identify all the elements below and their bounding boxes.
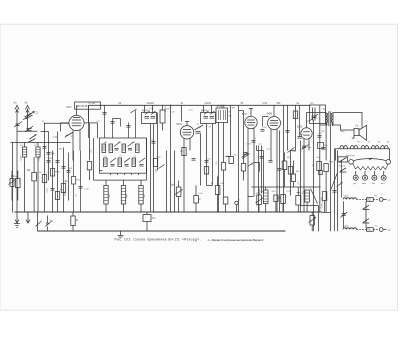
wire — [206, 124, 208, 186]
dial cord loops — [336, 145, 390, 160]
switch B1 — [29, 139, 36, 143]
svg-text:1М: 1М — [220, 183, 223, 185]
trimmer C9 — [124, 158, 130, 166]
svg-text:Пл: Пл — [152, 216, 156, 220]
svg-text:ФПЧ-2: ФПЧ-2 — [201, 109, 209, 113]
svg-text:2х4300: 2х4300 — [147, 103, 155, 105]
resistor R1 — [16, 171, 21, 201]
wire jog top — [239, 110, 244, 112]
capacitor C17 — [281, 195, 286, 213]
wire — [258, 146, 260, 213]
svg-text:ФПЧ-1: ФПЧ-1 — [142, 109, 150, 113]
wire — [341, 161, 343, 198]
wire — [166, 151, 168, 213]
wire — [150, 124, 152, 213]
wire — [93, 138, 95, 180]
wire — [88, 105, 90, 138]
wire — [48, 132, 50, 181]
coil L6 — [136, 144, 140, 153]
capacitor C43 — [298, 137, 302, 139]
switch S4 — [36, 221, 42, 227]
ground bottom mid — [118, 231, 124, 237]
speaker LS1 — [352, 125, 367, 140]
svg-text:R: R — [76, 218, 78, 222]
svg-text:1 — Вариант с Кенотронным выпр: 1 — Вариант с Кенотронным выпрямителем, … — [208, 238, 265, 242]
capacitor C33 — [43, 147, 47, 149]
wire — [73, 184, 75, 213]
tube V1 6A7 envelope — [69, 115, 84, 130]
wire — [16, 143, 18, 213]
tube V3 grids — [247, 120, 255, 125]
variable cap C34 tube3 — [242, 153, 248, 158]
wire jog — [291, 150, 296, 152]
wire band switch drop 2 — [112, 119, 114, 139]
potentiometer R19 — [9, 171, 16, 201]
tube V5 anode lead — [306, 124, 308, 128]
capacitor C15 — [223, 197, 228, 213]
capacitor C27 — [269, 161, 273, 163]
ground — [26, 212, 30, 223]
tube V5 grids — [303, 132, 310, 135]
wire diag to bus — [331, 173, 338, 191]
tube V1 cathode pins — [73, 130, 80, 160]
capacitor C40 — [79, 187, 83, 189]
diag arrow left input — [30, 135, 37, 140]
svg-text:0,25: 0,25 — [263, 103, 268, 105]
dial cord arrow — [369, 158, 373, 160]
dial cord upper run — [354, 159, 387, 161]
resistor R9 — [291, 161, 295, 188]
filter choke L16 — [305, 190, 310, 212]
wire — [243, 156, 245, 181]
wire — [89, 170, 91, 180]
svg-text:Верньер: Верньер — [346, 155, 355, 157]
antenna A1 — [15, 105, 19, 142]
wire — [238, 105, 240, 212]
dial cord lower zigzag — [353, 164, 388, 170]
svg-text:07 297: 07 297 — [89, 103, 97, 105]
dial pulley right — [386, 160, 391, 165]
power box — [310, 105, 326, 124]
svg-text:R: R — [211, 182, 213, 186]
wire — [37, 213, 39, 232]
svg-text:Сеть 110в: Сеть 110в — [321, 197, 324, 209]
tube V1 grids — [72, 118, 82, 126]
wire to speaker — [333, 113, 362, 128]
svg-text:6Г2: 6Г2 — [242, 112, 247, 116]
capacitor C4 — [47, 153, 51, 155]
tube V2 pins — [184, 139, 190, 213]
tube V3 6G2 envelope — [245, 116, 257, 128]
variable cap C30 — [302, 145, 309, 150]
svg-text:6К3: 6К3 — [177, 122, 182, 126]
wire — [57, 132, 59, 213]
wire — [12, 143, 14, 213]
svg-text:5100: 5100 — [21, 155, 23, 161]
resistor R6 — [221, 163, 225, 171]
wire diagonal — [311, 189, 318, 204]
resistor R10 — [293, 111, 297, 119]
tube V4 pins — [271, 129, 277, 213]
tube V5 6P6S envelope — [301, 128, 312, 139]
coil L3 — [102, 144, 106, 153]
socket terminal 1 — [353, 171, 358, 180]
wire — [325, 172, 327, 213]
resistor R4 — [87, 162, 91, 170]
capacitor C24 — [244, 153, 248, 155]
resistor R24 — [324, 164, 328, 172]
wire — [301, 205, 319, 207]
wire — [334, 213, 336, 232]
tube V4 grids — [270, 121, 279, 126]
mains choke L13 — [343, 198, 357, 200]
wire step — [323, 212, 331, 214]
trimmer C6 — [114, 142, 120, 150]
wire — [44, 124, 46, 213]
wire — [223, 123, 225, 163]
capacitor C22 — [192, 159, 196, 161]
wire band switch drop 3 — [128, 123, 130, 139]
tube V2 6K3 envelope — [180, 126, 193, 139]
svg-text:5100: 5100 — [20, 178, 22, 184]
svg-text:A1: A1 — [14, 101, 18, 105]
wire jog — [257, 146, 264, 151]
resistor R21 under tube2 — [182, 148, 186, 156]
capacitor C21 — [152, 142, 156, 144]
svg-text:A2: A2 — [25, 101, 29, 105]
electrolytic C18 — [296, 187, 301, 213]
capacitor C44 — [318, 136, 322, 138]
tube V2 grids — [183, 130, 192, 135]
tube V5 pins — [304, 138, 309, 212]
socket terminal 2 — [363, 171, 368, 180]
variable cap C28 — [288, 148, 295, 153]
tube V2 top cap — [185, 122, 189, 126]
wire grid line to tube1 — [45, 122, 70, 124]
resistor R17 — [42, 175, 46, 183]
capacitor C31 — [278, 169, 282, 171]
wire — [263, 151, 265, 194]
wire — [223, 170, 225, 197]
wire to speaker lower — [333, 125, 354, 130]
switch arm — [65, 132, 74, 138]
wire — [174, 151, 176, 213]
capacitor C19 — [51, 189, 55, 191]
variable cap C25 — [243, 154, 250, 159]
wire lower bus — [38, 230, 286, 232]
svg-text:Рис. 103. Схема приемника 6Н-2: Рис. 103. Схема приемника 6Н-25, «Рекорд… — [115, 238, 201, 242]
wire — [287, 105, 289, 150]
svg-text:C4: C4 — [51, 152, 55, 156]
capacitor C20 — [62, 167, 66, 169]
wire — [318, 206, 320, 232]
tube V3 top lead — [249, 109, 253, 117]
tick row on osc box — [100, 171, 139, 176]
wire — [146, 138, 148, 180]
svg-text:51к: 51к — [234, 155, 237, 157]
capacitor C12 — [310, 114, 318, 121]
switch lever — [340, 168, 347, 172]
coil L8 — [118, 158, 122, 167]
capacitor C45 — [322, 148, 326, 150]
resistor R18 — [55, 192, 59, 200]
wire — [325, 124, 327, 161]
capacitor C16 — [274, 195, 278, 213]
wire — [52, 151, 54, 213]
wire left input bus — [11, 142, 71, 144]
wire heavy pair — [279, 131, 281, 213]
wire jog — [254, 163, 260, 172]
wire — [230, 105, 232, 156]
svg-text:51к: 51к — [166, 108, 169, 110]
wire dashed — [357, 229, 367, 231]
capacitor C39 — [67, 171, 71, 173]
resistor R23 — [288, 167, 292, 175]
socket terminal 4 — [381, 171, 386, 180]
wire jog — [263, 117, 269, 127]
switch S1 — [46, 216, 51, 232]
wire — [200, 161, 202, 186]
wire dashed — [373, 229, 379, 231]
resistor R25 — [241, 164, 245, 172]
wire jog — [113, 119, 121, 127]
svg-text:Др: Др — [65, 179, 69, 183]
ground — [14, 212, 20, 228]
resistor R2 — [32, 157, 37, 213]
svg-text:51к: 51к — [317, 157, 320, 159]
capacitor C13 — [340, 212, 347, 218]
wire — [63, 148, 65, 213]
resistor R3 — [61, 184, 65, 193]
coil L9 — [132, 158, 136, 167]
trimmer capacitor C1 — [23, 112, 34, 121]
socket terminal 3 — [372, 171, 377, 180]
capacitor C38 — [47, 161, 51, 163]
padder coil L10 — [104, 180, 108, 212]
padder coil L12 — [139, 180, 143, 212]
switch S2 — [363, 205, 370, 209]
trimmer C8 — [110, 158, 116, 166]
resistor R11 — [317, 162, 323, 175]
capacitor C46 — [302, 146, 306, 148]
resistor R20 — [153, 159, 157, 167]
wire — [80, 151, 82, 213]
svg-text:R: R — [172, 183, 174, 187]
wire — [89, 123, 91, 161]
wire — [337, 151, 339, 232]
wire — [334, 149, 336, 213]
wire mains mid leg — [365, 201, 367, 227]
wire tube1 grid left — [84, 123, 98, 139]
dial pulley left — [349, 160, 354, 165]
wire sub-bus — [252, 186, 321, 188]
capacitor C5 — [56, 161, 60, 163]
wire — [88, 105, 90, 122]
switch arm S5 — [159, 165, 165, 169]
trimmer capacitor C3 — [25, 126, 33, 132]
wire — [41, 131, 49, 133]
resistor R14 — [215, 177, 220, 213]
IF transformer T2 box — [201, 105, 216, 123]
fuse F1 — [367, 198, 374, 202]
plug P1 — [379, 198, 386, 202]
wire oscillator sub-bus — [94, 179, 147, 181]
diag switch — [248, 163, 254, 167]
svg-text:Шкала: Шкала — [339, 166, 347, 168]
capacitor C29 — [286, 131, 290, 133]
wire dashed — [357, 199, 367, 201]
switch diag — [131, 109, 137, 113]
IF transformer T1 box — [142, 105, 157, 123]
capacitor C41 — [252, 141, 256, 143]
switch S3 — [363, 219, 370, 223]
wire — [299, 105, 301, 136]
diag arrow — [337, 183, 343, 187]
svg-text:ПО: ПО — [367, 229, 371, 232]
tube V1 anode lead — [76, 105, 78, 115]
resistor R27 — [72, 177, 76, 185]
wire main chassis bus — [15, 211, 323, 213]
wire — [212, 124, 214, 186]
trimmer C7 — [128, 142, 134, 150]
wire — [153, 124, 155, 213]
wire top B+ bus — [89, 104, 311, 106]
resistor R16 — [71, 213, 75, 232]
svg-text:R: R — [313, 164, 315, 168]
component box top — [318, 143, 324, 149]
wire — [17, 130, 38, 132]
wire — [68, 153, 70, 201]
tube V4 anode lead — [273, 105, 275, 116]
filter choke L15 — [263, 187, 268, 212]
svg-text:2200: 2200 — [39, 155, 41, 161]
IF transformer T3 box — [216, 108, 228, 123]
resistor R22 — [204, 167, 208, 175]
wire — [330, 126, 332, 232]
wire — [170, 105, 172, 212]
svg-text:R1: R1 — [11, 174, 15, 178]
wire dashed — [373, 199, 379, 201]
capacitor C23 — [205, 161, 209, 163]
wire — [261, 146, 263, 194]
box AGC top — [75, 102, 101, 109]
small junction dots — [45, 105, 171, 123]
capacitor C14 — [194, 186, 199, 213]
variable cap C11 — [195, 125, 204, 133]
svg-text:бат: бат — [372, 183, 375, 185]
wire — [61, 123, 70, 132]
svg-text:6Е5: 6Е5 — [297, 125, 303, 129]
plug P2 — [379, 228, 386, 232]
svg-text:R2: R2 — [27, 168, 31, 172]
svg-text:ДВ СВ КВ: ДВ СВ КВ — [77, 105, 88, 108]
wire — [181, 105, 183, 121]
capacitor C42 — [261, 130, 265, 132]
svg-text:1500: 1500 — [64, 191, 66, 197]
svg-text:C1: C1 — [35, 111, 39, 115]
svg-text:ПО: ПО — [367, 199, 371, 202]
wire — [313, 213, 315, 232]
coil L2 — [36, 143, 40, 213]
wire — [218, 123, 220, 213]
pilot lamp box — [143, 213, 151, 232]
capacitor C37 — [127, 126, 131, 128]
coil L7 — [104, 158, 108, 167]
wire — [290, 151, 292, 196]
svg-text:C: C — [199, 197, 201, 201]
capacitor C36 — [111, 122, 115, 124]
resistor R28 — [322, 192, 327, 213]
drive box — [338, 157, 348, 162]
tube V4 6P6 envelope — [268, 117, 281, 130]
tube V3 pins — [248, 128, 254, 213]
trimmer C10 — [139, 158, 145, 166]
wire band switch drop 4 — [135, 111, 137, 139]
capacitor C32 — [333, 191, 337, 193]
svg-text:2х430: 2х430 — [205, 103, 212, 105]
output transformer T4 — [307, 111, 334, 126]
wire — [200, 134, 202, 161]
coil L1 — [23, 143, 27, 213]
wire mains left leg — [343, 201, 345, 228]
antenna A2 — [25, 105, 29, 131]
svg-text:6А7: 6А7 — [67, 105, 73, 109]
capacitor C35 — [103, 113, 107, 115]
wire — [243, 111, 245, 156]
volume pot R13 — [175, 181, 183, 213]
wire jog — [248, 196, 254, 198]
jack socket — [235, 201, 238, 212]
mains choke L14 — [343, 228, 357, 230]
capacitor C26 — [260, 157, 264, 159]
resistor R5 tall — [160, 105, 165, 130]
resistor R7 — [229, 157, 233, 164]
wire jog — [226, 156, 231, 158]
wire — [73, 151, 75, 177]
resistor R26 — [51, 169, 55, 177]
wire jog — [207, 185, 213, 187]
wire — [295, 105, 297, 150]
wire — [313, 120, 315, 213]
wire — [157, 113, 159, 171]
coil L4 — [109, 144, 113, 153]
coil-pack box — [100, 138, 147, 173]
svg-text:СВ: СВ — [118, 142, 122, 144]
wire — [319, 105, 321, 212]
svg-text:C: C — [279, 196, 281, 200]
svg-text:56 130: 56 130 — [219, 105, 226, 107]
fuse F2 — [367, 228, 374, 232]
potentiometer R12 — [309, 213, 317, 232]
resistor R15 — [256, 189, 264, 213]
resistor R8 — [282, 153, 287, 188]
svg-text:6Ф6: 6Ф6 — [267, 112, 273, 116]
capacitor C2 — [14, 122, 22, 128]
padder coil L11 — [121, 180, 125, 212]
wire — [300, 141, 302, 213]
wire — [283, 105, 285, 212]
coil L5 — [122, 144, 126, 153]
wire band switch drop 1 — [104, 105, 106, 138]
